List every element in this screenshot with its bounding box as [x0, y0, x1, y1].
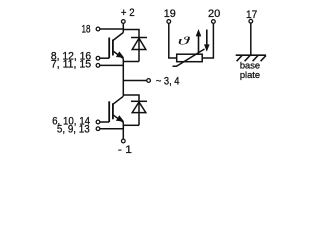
svg-text:~ 3, 4: ~ 3, 4 — [156, 75, 180, 87]
IGBT T1 emitter diagonal — [113, 51, 123, 59]
diode D1 cathode bar — [131, 37, 147, 39]
IGBT T2 gate bar — [108, 101, 110, 122]
svg-text:base: base — [240, 60, 260, 70]
svg-text:+ 2: + 2 — [121, 7, 135, 19]
terminal circle +2 — [121, 20, 125, 24]
chassis hatch 1 — [237, 56, 242, 62]
IGBT T2 body bar — [112, 103, 114, 119]
wire: diode D2 bottom to rail — [123, 124, 139, 126]
wire: gate lead T2 — [100, 121, 109, 123]
diode D2 anode wire down — [138, 102, 140, 125]
IGBT T2 emitter diagonal — [113, 115, 123, 123]
arrow down (resistance fall) — [206, 30, 208, 46]
svg-text:plate: plate — [240, 70, 260, 80]
chassis hatch 4 — [261, 56, 266, 62]
wire: AC output branch — [123, 80, 147, 82]
IGBT T1 body bar — [112, 40, 114, 56]
chassis hatch 3 — [253, 56, 258, 62]
base plate chassis line — [236, 54, 266, 56]
diode D1 triangle — [132, 38, 146, 49]
wire: emitter aux lead T2 — [100, 128, 123, 130]
terminal circle 6,10,14 (gate) — [96, 120, 100, 124]
terminal circle 7,11,15 (emitter aux) — [96, 64, 100, 68]
IGBT T1 gate bar — [108, 38, 110, 59]
wire: 19 down to thermistor — [169, 23, 177, 58]
terminal circle 8,12,16 (gate) — [96, 56, 100, 60]
wire: main rail emitter T1 down to node B — [122, 59, 124, 97]
IGBT T2 emitter arrow head — [116, 115, 124, 121]
diode D2 triangle — [132, 102, 146, 113]
svg-text:- 1: - 1 — [118, 144, 132, 156]
svg-text:ϑ: ϑ — [178, 34, 192, 48]
wire: rail T2 emitter down to -1 terminal — [122, 122, 124, 139]
diode D1 anode wire down — [138, 38, 140, 61]
IGBT T1 collector diagonal — [113, 33, 123, 41]
diode D2 cathode bar — [131, 100, 147, 102]
svg-text:18: 18 — [82, 24, 91, 36]
chassis hatch 2 — [245, 56, 250, 62]
terminal circle 5,9,13 (emitter aux) — [96, 127, 100, 131]
thermistor R1 body — [177, 54, 203, 62]
terminal circle 18 — [96, 27, 100, 31]
svg-text:7, 11, 15: 7, 11, 15 — [51, 59, 91, 71]
IGBT T1 emitter arrow head — [116, 51, 124, 57]
wire: diode D1 bottom to emitter rail — [123, 61, 139, 63]
terminal circle -1 — [121, 139, 125, 143]
svg-text:20: 20 — [208, 8, 220, 20]
arrow up (temperature rise) — [198, 36, 200, 53]
wire: node A to diode D1 top — [123, 30, 139, 38]
svg-text:5, 9, 13: 5, 9, 13 — [57, 123, 90, 135]
wire: emitter aux lead T1 — [100, 64, 123, 66]
thermistor R1 diagonal strike — [173, 49, 205, 66]
terminal circle ~3,4 — [147, 79, 151, 83]
wire: 20 down to thermistor — [202, 23, 213, 58]
wire: +2 terminal down to collector node — [122, 23, 124, 32]
wire: 18 to collector node A — [100, 28, 123, 30]
svg-text:19: 19 — [164, 8, 176, 20]
terminal circle 20 — [212, 20, 216, 24]
terminal circle 19 — [167, 20, 171, 24]
wire: gate lead T1 — [100, 57, 109, 59]
IGBT T2 collector diagonal — [113, 96, 123, 104]
wire: 17 down to base plate — [250, 23, 252, 55]
terminal circle 17 — [249, 19, 253, 23]
wire: node B to diode D2 top — [123, 95, 139, 101]
